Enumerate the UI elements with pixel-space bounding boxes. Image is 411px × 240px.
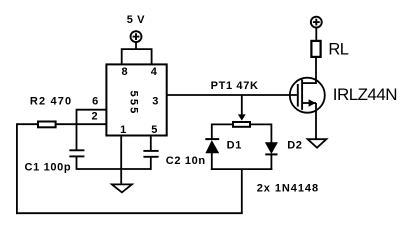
svg-text:5: 5: [151, 124, 158, 136]
wire pin 2 left: [17, 123, 107, 125]
transistor Q1 IRLZ44N circle: [290, 78, 325, 113]
wiper arrowhead: [238, 114, 246, 120]
svg-text:R2 470: R2 470: [30, 96, 72, 108]
IC U1 555 body: [106, 64, 166, 135]
svg-text:D2: D2: [287, 139, 302, 151]
ground symbol (555): [112, 184, 132, 192]
wire pin 1 down: [120, 136, 122, 170]
diode D2 triangle: [265, 142, 278, 154]
wire supply to RL: [315, 27, 317, 41]
svg-text:4: 4: [151, 66, 158, 78]
svg-text:RL: RL: [328, 41, 348, 59]
wire RL to drain: [315, 57, 317, 84]
wire pin 3 to gate: [167, 94, 297, 96]
wire C1 bottom to ground rail: [77, 156, 151, 169]
diode D2 cathode bar: [265, 153, 277, 155]
wire D2 branch top: [270, 124, 272, 144]
svg-text:C2 10n: C2 10n: [166, 155, 206, 167]
resistor RL body: [311, 41, 320, 57]
svg-text:2: 2: [92, 111, 99, 123]
wire wiper drop: [241, 95, 243, 115]
transistor gate bar: [297, 84, 299, 107]
svg-text:IRLZ44N: IRLZ44N: [333, 85, 397, 104]
wire Vcc stem: [135, 42, 137, 49]
wire bottom rail: [16, 212, 243, 214]
transistor channel bar: [301, 80, 303, 110]
wire pot right: [251, 123, 272, 125]
resistor R2 body: [38, 122, 56, 128]
svg-text:6: 6: [92, 96, 99, 108]
svg-text:D1: D1: [227, 139, 242, 151]
diode D1 triangle: [205, 140, 219, 153]
wire D1 branch top: [211, 124, 213, 140]
wire C2 bottom down: [150, 157, 152, 170]
diode D1 cathode bar: [205, 138, 219, 140]
svg-text:PT1 47K: PT1 47K: [211, 80, 259, 92]
ground symbol (transistor): [308, 139, 327, 148]
svg-text:2x 1N4148: 2x 1N4148: [257, 183, 319, 195]
wire pin 5 down: [150, 136, 152, 151]
svg-text:C1 100p: C1 100p: [25, 161, 72, 173]
wire D1 branch bottom: [211, 153, 213, 170]
transistor drain connection: [302, 82, 316, 84]
potentiometer PT1 body: [233, 122, 250, 127]
svg-text:1: 1: [120, 124, 127, 136]
wire ground stub: [120, 169, 122, 184]
wire left rail down: [16, 123, 18, 214]
wire Vcc bar to pins 8 and 4: [122, 49, 152, 64]
supply symbol + (top right): [311, 17, 322, 28]
wire center drop to bottom rail: [241, 169, 243, 213]
capacitor C1 plates: [69, 150, 84, 156]
svg-text:555: 555: [128, 91, 140, 116]
wire diode box bottom: [211, 168, 272, 170]
svg-text:8: 8: [122, 66, 129, 78]
svg-text:5 V: 5 V: [127, 14, 145, 26]
wire source down: [315, 103, 317, 139]
wire D2 branch bottom: [270, 154, 272, 170]
supply symbol +5V (circle with plus): [131, 31, 142, 42]
svg-text:3: 3: [152, 96, 159, 108]
capacitor C2 plates: [143, 151, 158, 157]
wire pot left: [212, 123, 233, 125]
transistor source arrow: [309, 99, 316, 107]
transistor source connection: [302, 102, 316, 104]
wire pin 6 to node A: [77, 110, 107, 150]
